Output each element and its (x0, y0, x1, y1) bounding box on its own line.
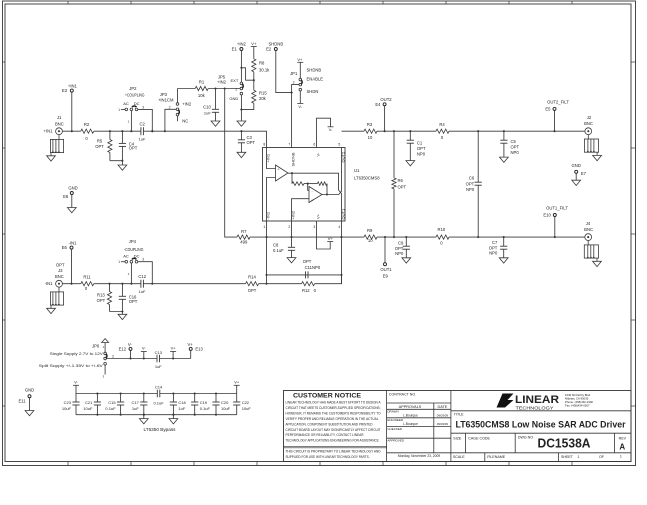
U1 wire Ra to Rb node (304, 183, 317, 185)
capacitor C1 OPT NP0 (409, 131, 411, 140)
svg-text:AC: AC (123, 253, 129, 258)
svg-text:LT6350 Bypass: LT6350 Bypass (144, 427, 176, 432)
svg-text:1uF: 1uF (132, 406, 139, 411)
jumper JP6 supply select (102, 339, 109, 343)
svg-text:DATE: DATE (437, 405, 447, 409)
turret E10 OUT1_FILT (554, 216, 556, 237)
svg-text:J2: J2 (587, 115, 592, 120)
wire R1 to JP5 (208, 88, 240, 90)
svg-text:E9: E9 (383, 274, 389, 279)
capacitor C19 0.1uF (194, 394, 196, 403)
wire JP3 to R1 (178, 88, 196, 90)
svg-text:OPT: OPT (97, 298, 106, 303)
svg-text:6: 6 (313, 143, 315, 147)
svg-text:SHEET: SHEET (561, 455, 574, 459)
wire R3 to R4 (377, 130, 436, 132)
wire R14 to R12 (259, 283, 302, 285)
svg-text:JP2: JP2 (129, 86, 137, 91)
power flag V+ at U1 pin3 (327, 241, 333, 243)
svg-text:V+: V+ (171, 345, 177, 350)
wire U1 pin4 feedback vertical (341, 237, 343, 284)
svg-text:R7: R7 (241, 229, 247, 234)
U1 amplifier A2 (309, 187, 322, 203)
svg-text:GND: GND (572, 163, 581, 168)
svg-text:+IN2: +IN2 (237, 42, 247, 47)
ground below R5 C4 (118, 165, 127, 170)
svg-text:5: 5 (338, 143, 340, 147)
capacitor C12 1uF (140, 280, 142, 288)
capacitor C4 OPT (121, 131, 123, 143)
svg-text:C11NP0: C11NP0 (305, 265, 321, 270)
capacitor C15 0.1uF (120, 394, 122, 403)
U1 wire +IN1 to A1 (267, 148, 276, 169)
svg-text:OUT1: OUT1 (380, 267, 392, 272)
U1 internal resistor Ra (291, 173, 293, 183)
svg-text:1: 1 (620, 455, 622, 459)
resistor R15 20k (252, 90, 256, 103)
svg-text:1: 1 (118, 260, 120, 264)
svg-text:-IN1: -IN1 (45, 281, 54, 286)
svg-text:CUSTOMER NOTICE: CUSTOMER NOTICE (293, 393, 361, 400)
wire R12 to pin4 vertical (315, 275, 342, 284)
svg-text:R5: R5 (97, 139, 103, 144)
svg-text:NP0: NP0 (395, 251, 404, 256)
svg-text:ENGINEER: ENGINEER (387, 418, 404, 422)
capacitor C6 OPT NP0 (477, 131, 479, 182)
svg-text:2: 2 (288, 225, 290, 229)
turret E12 V- (129, 347, 132, 350)
svg-text:LINEAR: LINEAR (515, 394, 559, 406)
svg-text:OPT: OPT (398, 184, 407, 189)
svg-text:Fax: (408)434-0507: Fax: (408)434-0507 (565, 403, 590, 407)
turret E3 +IN1 (70, 89, 73, 92)
svg-text:C9: C9 (398, 241, 404, 246)
wire JP2 pin2 to row (130, 111, 132, 132)
svg-text:LT6350CMS8 Low Noise SAR ADC D: LT6350CMS8 Low Noise SAR ADC Driver (456, 420, 626, 430)
svg-text:E2: E2 (266, 47, 272, 52)
svg-text:E5: E5 (545, 106, 551, 111)
capacitor C8 0.1uF (290, 236, 292, 238)
connector J3 BNC -IN1 OPT (56, 280, 63, 287)
svg-text:E8: E8 (63, 194, 69, 199)
svg-text:Monday, November 23, 2009: Monday, November 23, 2009 (398, 454, 440, 458)
svg-text:JP6: JP6 (92, 343, 100, 348)
svg-text:E1: E1 (232, 47, 238, 52)
scale filename sheet row (484, 453, 486, 462)
svg-text:OUT1_FILT: OUT1_FILT (546, 205, 568, 210)
svg-text:V-: V- (74, 379, 78, 384)
svg-text:NP0: NP0 (489, 251, 498, 256)
svg-text:OPT: OPT (56, 263, 65, 268)
svg-text:E10: E10 (543, 212, 551, 217)
svg-text:SHDNB: SHDNB (291, 152, 296, 166)
svg-text:JP4: JP4 (129, 239, 137, 244)
svg-text:APPROVED: APPROVED (387, 439, 405, 443)
power flag V- at U1 pin6 (328, 126, 334, 128)
wire C2 to U1 pin8 (143, 131, 266, 147)
svg-text:CIRCUIT THAT MEETS CUSTOMER-SU: CIRCUIT THAT MEETS CUSTOMER-SUPPLIED SPE… (286, 406, 381, 410)
capacitor C7 OPT NP0 (503, 237, 505, 246)
capacitor C10 1uF (215, 89, 217, 110)
svg-text:C5: C5 (511, 139, 517, 144)
svg-text:0.1uF: 0.1uF (153, 400, 164, 405)
Linear Technology logo (451, 410, 631, 412)
svg-text:R15: R15 (259, 91, 267, 96)
svg-text:C21: C21 (85, 400, 93, 405)
svg-text:3: 3 (142, 258, 144, 262)
turret E4 OUT2 (384, 106, 386, 132)
svg-text:V+: V+ (187, 342, 193, 347)
svg-text:R2: R2 (84, 122, 90, 127)
svg-text:E3: E3 (62, 88, 68, 93)
svg-text:AC: AC (123, 101, 129, 106)
U1 wire A1 output to OUT1 pin4 (288, 173, 342, 237)
svg-text:BNC: BNC (584, 121, 593, 126)
svg-text:J4: J4 (586, 221, 591, 226)
svg-text:20k: 20k (259, 96, 267, 101)
svg-text:C10: C10 (203, 105, 211, 110)
turret E2 SHDNB (274, 48, 277, 51)
wire R13 C16 junction to ground (110, 312, 123, 315)
svg-text:HOWEVER, IT REMAINS THE CUSTOM: HOWEVER, IT REMAINS THE CUSTOMER'S RESPO… (286, 411, 382, 415)
capacitor C13 1uF (156, 355, 158, 363)
resistor R5 OPT (109, 131, 111, 139)
size cage dwg row (451, 452, 631, 454)
svg-text:TECHNOLOGY APPLICATIONS ENGINE: TECHNOLOGY APPLICATIONS ENGINEERING FOR … (286, 439, 380, 443)
ground below E11 (25, 411, 34, 416)
svg-text:U1: U1 (354, 168, 360, 173)
svg-text:Single Supply 2.7V to 12V: Single Supply 2.7V to 12V (50, 351, 103, 356)
wire JP2 pin3 to row (138, 109, 153, 131)
svg-text:BNC: BNC (584, 227, 593, 232)
svg-text:DRAWN: DRAWN (387, 409, 398, 413)
svg-text:ENABLE: ENABLE (307, 76, 324, 81)
wire E6 to -IN1 row (71, 249, 73, 284)
op-amp U1 LT6350CMS8 (263, 148, 346, 222)
turret E1 +IN2 (240, 48, 243, 51)
svg-text:0.1uF: 0.1uF (105, 406, 116, 411)
U1 internal resistor Rb (317, 182, 327, 186)
svg-text:E13: E13 (195, 346, 203, 351)
svg-text:OPT: OPT (417, 146, 426, 151)
U1 amplifier A1 (276, 165, 289, 181)
capacitor C3 OPT (240, 131, 242, 140)
svg-text:10uF: 10uF (83, 406, 93, 411)
wire OUT1 row pin1 to pin4 (267, 236, 365, 238)
svg-text:FILENAME: FILENAME (487, 455, 506, 459)
resistor R6 OPT (393, 131, 395, 178)
power flag V- below JP1 (297, 102, 303, 104)
connector J1 BNC +IN1 (56, 128, 63, 135)
svg-text:PERFORMANCE OR RELIABILITY. CO: PERFORMANCE OR RELIABILITY. CONTACT LINE… (286, 433, 365, 437)
capacitor C16 OPT (121, 284, 123, 297)
resistor R1 10k (195, 86, 208, 90)
svg-text:CONTRACT NO.: CONTRACT NO. (389, 393, 416, 397)
wire J3 to R11 (62, 283, 80, 285)
U1 wire A2 output to OUT2 pin5 (322, 148, 342, 195)
svg-text:OPT: OPT (511, 145, 520, 150)
svg-text:C17: C17 (131, 400, 139, 405)
power flag V+ at rail (170, 351, 176, 353)
svg-text:NP0: NP0 (511, 150, 520, 155)
wire R11 to C12 (94, 283, 141, 285)
svg-text:C15: C15 (108, 400, 116, 405)
svg-text:GND: GND (25, 388, 34, 393)
svg-text:J1: J1 (57, 115, 62, 120)
svg-text:CIRCUIT BOARD LAYOUT MAY SIGNI: CIRCUIT BOARD LAYOUT MAY SIGNIFICANTLY A… (286, 428, 381, 432)
svg-text:OPT: OPT (129, 145, 138, 150)
wire JP4 pin2 to row (130, 263, 132, 284)
svg-text:1uF: 1uF (139, 289, 146, 294)
svg-text:OPT: OPT (129, 299, 138, 304)
bypass top rail (76, 393, 157, 395)
svg-text:JP1: JP1 (290, 71, 298, 76)
resistor R10 0 (436, 235, 449, 239)
svg-text:1uF: 1uF (155, 364, 162, 369)
svg-text:C6: C6 (469, 176, 475, 181)
svg-text:1: 1 (118, 108, 120, 112)
svg-text:V-: V- (329, 127, 333, 132)
wire E3 to +IN1 row (71, 92, 73, 131)
svg-text:C13: C13 (155, 350, 163, 355)
svg-text:CHECKED: CHECKED (387, 427, 403, 431)
turret E9 OUT1 (384, 237, 386, 263)
svg-text:C1: C1 (417, 140, 423, 145)
power flag V- at rail (141, 351, 147, 353)
capacitor C17 1uF (143, 394, 145, 403)
ground below C3 (237, 152, 246, 157)
wire JP6 pin2 rail (106, 358, 157, 360)
svg-text:NC: NC (182, 118, 188, 123)
resistor R14 OPT (246, 282, 259, 286)
svg-text:09/03/09: 09/03/09 (437, 413, 449, 417)
svg-text:Split Supply +/-1.35V to +/-6V: Split Supply +/-1.35V to +/-6V (39, 363, 103, 368)
svg-text:C19: C19 (200, 400, 208, 405)
wire JP1 pin3 to V- flag (299, 91, 301, 104)
wire JP4 pin3 to row (138, 262, 153, 284)
connector J4 BNC (585, 234, 592, 241)
svg-text:1uF: 1uF (139, 137, 146, 142)
svg-text:V-: V- (128, 342, 133, 347)
wire R2 to C2 (94, 130, 141, 132)
svg-text:V+: V+ (316, 213, 321, 219)
svg-text:-: - (312, 189, 313, 193)
capacitor C9 OPT NP0 (405, 237, 407, 246)
U1 pin6 V- hook (317, 118, 331, 147)
svg-text:499: 499 (240, 239, 248, 244)
resistor R13 OPT (109, 284, 111, 292)
resistor R11 0 (81, 282, 94, 286)
svg-text:+COUPLING: +COUPLING (125, 93, 145, 98)
wire R10 to J4 (449, 236, 585, 238)
svg-text:BNC: BNC (55, 122, 64, 127)
svg-text:C20: C20 (221, 400, 229, 405)
svg-text:E7: E7 (581, 171, 587, 176)
svg-text:E12: E12 (119, 346, 127, 351)
svg-text:0.1uF: 0.1uF (273, 248, 284, 253)
turret E6 -IN1 (70, 246, 73, 249)
svg-text:NP0: NP0 (417, 152, 426, 157)
svg-text:+IN1: +IN1 (44, 129, 54, 134)
ground below bypass rail right (172, 415, 174, 419)
svg-text:DC1538A: DC1538A (538, 436, 592, 451)
svg-text:V-: V- (142, 345, 146, 350)
ground below R13 C16 (118, 314, 127, 319)
capacitor C5 OPT NP0 (503, 131, 505, 140)
wire E1 branch to R8 R15 junction (241, 68, 253, 80)
svg-text:2: 2 (235, 87, 237, 91)
svg-text:CAGE CODE: CAGE CODE (468, 436, 490, 440)
svg-text:2: 2 (169, 105, 171, 109)
title block outline (284, 391, 632, 462)
svg-text:J3: J3 (58, 268, 63, 273)
svg-text:8: 8 (263, 143, 265, 147)
svg-text:LINEAR TECHNOLOGY HAS MADE A B: LINEAR TECHNOLOGY HAS MADE A BEST EFFORT… (286, 401, 382, 405)
resistor R4 0 (436, 129, 449, 133)
svg-text:R13: R13 (97, 292, 105, 297)
svg-text:2: 2 (293, 81, 295, 85)
wire E2 to U1 pin7 (276, 51, 292, 93)
svg-text:C14: C14 (155, 384, 163, 389)
svg-text:R4: R4 (439, 122, 445, 127)
wire R8 to R15 (253, 72, 255, 90)
svg-text:GND: GND (229, 96, 238, 101)
wire R1 junction down to R7 (225, 89, 237, 238)
resistor R8 30.1k (253, 47, 255, 59)
wire R7 to pin1 node (250, 236, 267, 238)
resistor R2 0 (81, 129, 94, 133)
svg-text:10: 10 (368, 135, 373, 140)
svg-text:10uF: 10uF (62, 406, 72, 411)
svg-text:C22: C22 (242, 400, 250, 405)
svg-text:SHDN: SHDN (307, 89, 319, 94)
customer notice box (386, 391, 388, 462)
svg-text:10uF: 10uF (242, 406, 252, 411)
svg-text:C8: C8 (273, 242, 279, 247)
turret E5 OUT2_FILT (554, 110, 556, 131)
svg-text:3: 3 (142, 105, 144, 109)
svg-text:R6: R6 (398, 178, 404, 183)
svg-text:OPT: OPT (466, 181, 475, 186)
title text (451, 432, 631, 434)
svg-text:R10: R10 (438, 227, 446, 232)
svg-text:OPT: OPT (95, 144, 104, 149)
svg-text:V-: V- (316, 152, 321, 156)
svg-text:+IN2: +IN2 (217, 79, 227, 84)
U1 wire -IN1 to A1 (267, 178, 276, 222)
wire U1 pin5 to R3 (342, 130, 365, 132)
svg-text:7: 7 (288, 143, 290, 147)
svg-text:V+: V+ (234, 379, 240, 384)
svg-text:DWG NO: DWG NO (518, 436, 533, 440)
wire C12 to R14 (143, 283, 245, 285)
svg-text:A: A (619, 443, 625, 452)
svg-text:1uF: 1uF (178, 406, 185, 411)
ground below E8 (67, 208, 76, 213)
U1 wire node to A2 inverting input (308, 184, 309, 191)
svg-text:1uF: 1uF (204, 111, 211, 116)
contract and approvals box (450, 391, 452, 462)
svg-text:-COUPLING: -COUPLING (124, 247, 144, 252)
capacitor C22 10uF (236, 394, 238, 403)
capacitor C20 10uF (215, 394, 217, 403)
U1 wire Rb to A2 output (326, 184, 328, 195)
svg-text:SHDNB: SHDNB (307, 68, 322, 73)
svg-text:R14: R14 (248, 275, 256, 280)
svg-text:SIZE: SIZE (453, 436, 462, 440)
svg-text:+IN1CM: +IN1CM (158, 97, 174, 102)
svg-text:-: - (278, 177, 279, 181)
svg-text:R1: R1 (199, 79, 205, 84)
svg-text:10k: 10k (198, 93, 206, 98)
svg-text:V+: V+ (251, 41, 257, 46)
ground below C10 (211, 121, 220, 126)
svg-text:E6: E6 (62, 245, 68, 250)
bypass bottom rail (76, 414, 237, 416)
power flag V+ above R8 (251, 46, 257, 48)
svg-text:V-: V- (298, 104, 302, 109)
svg-text:OF: OF (599, 455, 605, 459)
svg-text:L.Bourque: L.Bourque (403, 422, 418, 426)
svg-text:OUT2: OUT2 (380, 97, 392, 102)
wire U1 pin1 feedback vertical (266, 221, 268, 284)
ground below C7 (499, 258, 508, 263)
svg-text:OUT2_FILT: OUT2_FILT (547, 99, 569, 104)
svg-text:EXT: EXT (231, 78, 239, 83)
svg-text:TECHNOLOGY: TECHNOLOGY (516, 405, 555, 411)
svg-text:4: 4 (338, 225, 340, 229)
svg-text:NP0: NP0 (466, 187, 475, 192)
ground below bypass rail left (143, 415, 145, 419)
svg-text:+IN2: +IN2 (182, 102, 192, 107)
svg-text:3: 3 (313, 225, 315, 229)
svg-text:+IN1: +IN1 (68, 84, 78, 89)
svg-text:+: + (311, 199, 313, 203)
capacitor C11 NP0 OPT (267, 274, 342, 276)
resistor R9 10 (364, 235, 377, 239)
U1 pin3 V+ hook (317, 221, 331, 249)
ground below C5 (500, 157, 509, 162)
turret E13 V+ (189, 347, 192, 350)
svg-text:R9: R9 (367, 228, 373, 233)
svg-text:R8: R8 (259, 60, 265, 65)
svg-text:1: 1 (263, 225, 265, 229)
capacitor C2 1uF (140, 127, 142, 135)
resistor R12 zigzag (302, 282, 315, 286)
wire J1 to R2 (62, 130, 80, 132)
svg-text:V+: V+ (297, 57, 303, 62)
svg-text:09/03/09: 09/03/09 (437, 422, 449, 426)
wire R9 to R10 (377, 236, 436, 238)
svg-text:R3: R3 (367, 122, 373, 127)
U1 wire A2 noninverting input to +IN2 pin2 (292, 199, 310, 237)
svg-text:10: 10 (368, 238, 373, 243)
svg-text:0.1uF: 0.1uF (200, 406, 211, 411)
svg-text:C23: C23 (64, 400, 72, 405)
svg-text:APPLICATION. COMPONENT SUBSTIT: APPLICATION. COMPONENT SUBSTITUTION AND … (286, 422, 374, 426)
capacitor C14 0.1uF (156, 390, 158, 398)
wire R4 to J2 (449, 130, 585, 132)
svg-text:1: 1 (578, 455, 580, 459)
svg-text:C2: C2 (140, 122, 146, 127)
ground below E7 (572, 180, 581, 185)
svg-text:L.Bourque: L.Bourque (403, 413, 418, 417)
capacitor C18 1uF (172, 394, 174, 403)
svg-text:THIS CIRCUIT IS PROPRIETARY TO: THIS CIRCUIT IS PROPRIETARY TO LINEAR TE… (286, 450, 382, 454)
ground below C1 (406, 161, 415, 166)
svg-text:R11: R11 (83, 275, 91, 280)
svg-text:APPROVALS: APPROVALS (399, 405, 422, 409)
